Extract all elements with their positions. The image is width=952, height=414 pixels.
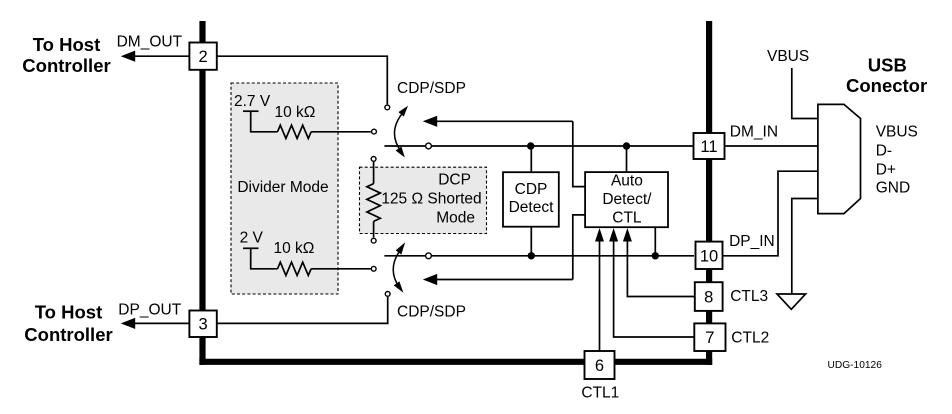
switch arc bottom (CDP/SDP selector)	[393, 249, 401, 288]
DCP shorted mode dashed box	[360, 167, 487, 233]
wire pin2 to top switch contact	[217, 56, 387, 104]
wire resistor to switch pole	[311, 268, 371, 270]
ground symbol	[777, 294, 806, 309]
voltage source 2V	[243, 247, 259, 249]
svg-text:10 kΩ: 10 kΩ	[274, 240, 315, 257]
IC boundary left (thick bus)	[199, 21, 205, 365]
svg-text:CTL3: CTL3	[730, 288, 768, 305]
wire CDP detect bottom	[530, 227, 532, 256]
IC boundary bottom (thick bus)	[199, 359, 712, 365]
svg-text:Conector: Conector	[846, 75, 927, 96]
wire CDP/SDP arrow into bottom switch	[431, 279, 573, 281]
pin 8	[695, 282, 723, 311]
svg-text:Detect: Detect	[509, 199, 554, 216]
resistor 125 ohm vertical	[373, 162, 375, 184]
svg-text:Detect/: Detect/	[602, 191, 652, 208]
wire VBUS to connector	[792, 68, 818, 119]
IC boundary right (thick bus)	[706, 21, 712, 365]
switch arc top (CDP/SDP selector)	[394, 113, 403, 152]
wire DP_OUT arrow to pin3	[131, 322, 190, 324]
pin 11	[694, 133, 725, 159]
junction DM-auto	[623, 142, 630, 149]
svg-text:VBUS: VBUS	[767, 48, 809, 65]
svg-text:UDG-10126: UDG-10126	[828, 360, 883, 371]
svg-text:2 V: 2 V	[240, 229, 264, 246]
pin 3	[189, 311, 216, 338]
svg-text:11: 11	[700, 138, 717, 156]
wire DP net (switch to pin 10)	[384, 255, 694, 257]
svg-text:D+: D+	[876, 162, 896, 179]
pin 6	[585, 351, 615, 379]
pin 10	[696, 242, 723, 269]
wire auto-ctl upper output	[573, 121, 585, 186]
svg-text:CTL2: CTL2	[731, 330, 769, 347]
wire CTL3 pin8 to auto	[627, 241, 694, 297]
junction DP-CDP	[528, 252, 535, 259]
svg-text:CDP: CDP	[515, 181, 548, 198]
svg-text:To Host: To Host	[35, 302, 102, 323]
svg-text:2: 2	[199, 48, 208, 66]
wire pin10 to connector D+	[723, 171, 818, 256]
svg-text:DM_OUT: DM_OUT	[117, 34, 183, 51]
svg-text:3: 3	[199, 316, 208, 334]
svg-text:Auto: Auto	[611, 172, 643, 189]
svg-text:D-: D-	[876, 143, 892, 160]
wire auto detect top	[626, 146, 628, 172]
pin 7	[694, 323, 725, 351]
wire auto detect bottom right to DP	[654, 227, 656, 256]
junction DP-auto	[652, 252, 659, 259]
svg-text:DP_IN: DP_IN	[729, 233, 775, 250]
svg-text:2.7 V: 2.7 V	[234, 93, 271, 110]
svg-text:10 kΩ: 10 kΩ	[275, 104, 316, 121]
svg-text:6: 6	[595, 357, 604, 375]
svg-text:VBUS: VBUS	[876, 124, 918, 141]
svg-text:8: 8	[704, 289, 713, 307]
resistor R 10k bottom	[278, 262, 312, 275]
switch contact circles top	[385, 105, 390, 110]
svg-text:CTL: CTL	[612, 209, 642, 226]
USB connector body	[818, 104, 861, 213]
wire pin3 to bottom switch contact	[217, 297, 388, 323]
junction DM-CDP	[527, 142, 534, 149]
svg-text:125 Ω Shorted: 125 Ω Shorted	[381, 191, 481, 208]
svg-text:CDP/SDP: CDP/SDP	[397, 80, 466, 97]
svg-text:GND: GND	[876, 180, 910, 197]
svg-text:DCP: DCP	[438, 172, 471, 189]
voltage source 2.7V	[243, 110, 259, 112]
switch contact circles bottom	[371, 238, 376, 243]
svg-text:CDP/SDP: CDP/SDP	[397, 304, 466, 321]
wire connector GND to ground	[792, 199, 818, 295]
svg-text:CTL1: CTL1	[581, 385, 619, 402]
wire CDP/SDP arrow into top switch	[431, 120, 573, 122]
resistor R 10k top	[278, 125, 312, 138]
wire CTL1 pin6 to auto	[599, 241, 601, 351]
wire DM_OUT arrow to pin2	[131, 55, 190, 57]
wire CTL2 pin7 to auto	[614, 241, 694, 337]
divider mode dashed box	[231, 83, 338, 294]
svg-text:USB: USB	[868, 54, 907, 75]
svg-text:Divider Mode: Divider Mode	[237, 179, 328, 196]
wire pin11 to connector D-	[725, 145, 818, 147]
svg-text:Controller: Controller	[24, 324, 112, 345]
svg-text:To Host: To Host	[33, 34, 100, 55]
svg-text:DM_IN: DM_IN	[730, 123, 778, 140]
wire CDP detect top	[530, 146, 532, 172]
wire auto-ctl lower output	[573, 215, 585, 280]
wire DM net (switch to pin 11)	[384, 145, 693, 147]
svg-text:10: 10	[700, 247, 718, 265]
Auto Detect/CTL box	[585, 172, 668, 227]
svg-text:7: 7	[705, 329, 714, 347]
svg-text:Controller: Controller	[22, 55, 110, 76]
svg-text:Mode: Mode	[436, 210, 475, 227]
svg-text:DP_OUT: DP_OUT	[118, 302, 181, 319]
pin 2	[189, 43, 216, 70]
CDP Detect box	[503, 172, 559, 227]
wire resistor to switch pole	[311, 131, 371, 133]
